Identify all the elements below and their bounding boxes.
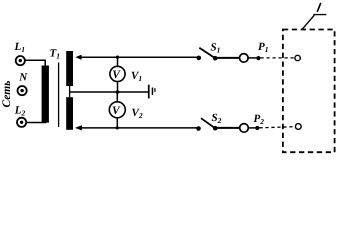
svg-text:V: V — [112, 105, 121, 117]
svg-text:V: V — [112, 69, 121, 81]
svg-text:Сеть: Сеть — [1, 81, 13, 108]
svg-text:N: N — [18, 72, 28, 84]
